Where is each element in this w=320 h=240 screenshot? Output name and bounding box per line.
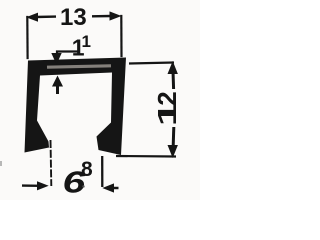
svg-text:13: 13 (60, 4, 87, 31)
channel profile cross-section (25, 58, 127, 156)
dimension 13: right arrow (92, 15, 111, 18)
dimension 12: top arrow (168, 61, 178, 74)
dimension 6.8: left extension line (50, 140, 53, 186)
dimension 12: bottom extension line (116, 155, 176, 158)
svg-text:1: 1 (152, 102, 181, 127)
dimension 6.8: left arrow pointing right (22, 184, 40, 187)
svg-text:8: 8 (81, 158, 93, 181)
dimension 13: left arrow (26, 13, 38, 22)
dimension 6.8: right extension line with left arrow (101, 156, 103, 187)
dimension 12: bottom segment and arrow (172, 127, 176, 146)
dimension 12: top extension line (129, 63, 174, 64)
dimension 1.1: opposing up arrow (52, 76, 63, 87)
svg-text:1: 1 (82, 32, 91, 51)
dimension 1.1: leader with down arrow (57, 52, 78, 56)
edge speck (0, 161, 2, 166)
scan streak inside top bar (47, 66, 111, 67)
decimal point speck (82, 185, 84, 187)
dimension 13: left extension line (26, 17, 29, 58)
paper background (0, 0, 200, 200)
dimension 13: right extension line (120, 16, 122, 56)
